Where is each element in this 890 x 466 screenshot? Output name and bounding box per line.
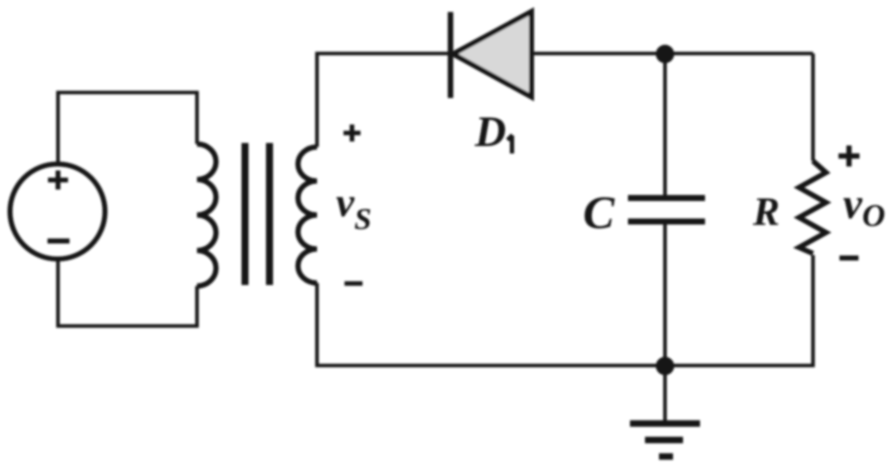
svg-text:vS: vS (336, 179, 371, 236)
wire: resistor bottom to bottom rail (665, 255, 813, 366)
ground symbol bar 1 (630, 420, 700, 427)
voltage source minus sign (48, 239, 70, 244)
wire: junction down to capacitor top plate (663, 54, 667, 195)
transformer core bar left (242, 143, 249, 285)
wire: primary loop top (source top to primary coil) (58, 93, 197, 164)
svg-text:R: R (752, 189, 780, 234)
wire: secondary bottom to ground rail (317, 283, 665, 366)
diode D1 cathode bar (448, 12, 454, 98)
wire: primary loop bottom (source bottom to primary coil) (58, 261, 197, 326)
wire: diode anode to top-right corner (532, 52, 814, 56)
capacitor C bottom plate (628, 219, 705, 225)
label: plus at output (839, 146, 860, 167)
svg-text:vO: vO (843, 181, 885, 233)
wire: top-right corner down to resistor (811, 54, 815, 162)
label: minus at secondary winding (345, 281, 363, 286)
svg-text:C: C (583, 187, 615, 239)
diode D1 triangle (453, 12, 532, 98)
wire: secondary top to diode cathode (317, 54, 448, 148)
wire: junction to ground symbol (663, 366, 667, 421)
voltage source VS circle (10, 164, 105, 259)
node: bottom junction dot (656, 357, 674, 375)
voltage source plus sign (48, 171, 68, 190)
label: minus at output (840, 256, 859, 261)
svg-text:D: D (474, 109, 506, 156)
capacitor C top plate (628, 195, 705, 201)
node: top junction dot (656, 45, 674, 63)
label: D1 subscript 1 (508, 135, 513, 154)
wire: capacitor bottom plate to bottom rail (663, 225, 667, 366)
transformer secondary winding L2 (298, 147, 317, 283)
resistor R zigzag (799, 161, 826, 254)
transformer core bar right (266, 143, 273, 285)
label: plus at secondary winding (344, 125, 361, 142)
ground symbol bar 3 (659, 453, 673, 460)
ground symbol bar 2 (645, 437, 683, 444)
transformer primary winding L1 (197, 144, 216, 286)
